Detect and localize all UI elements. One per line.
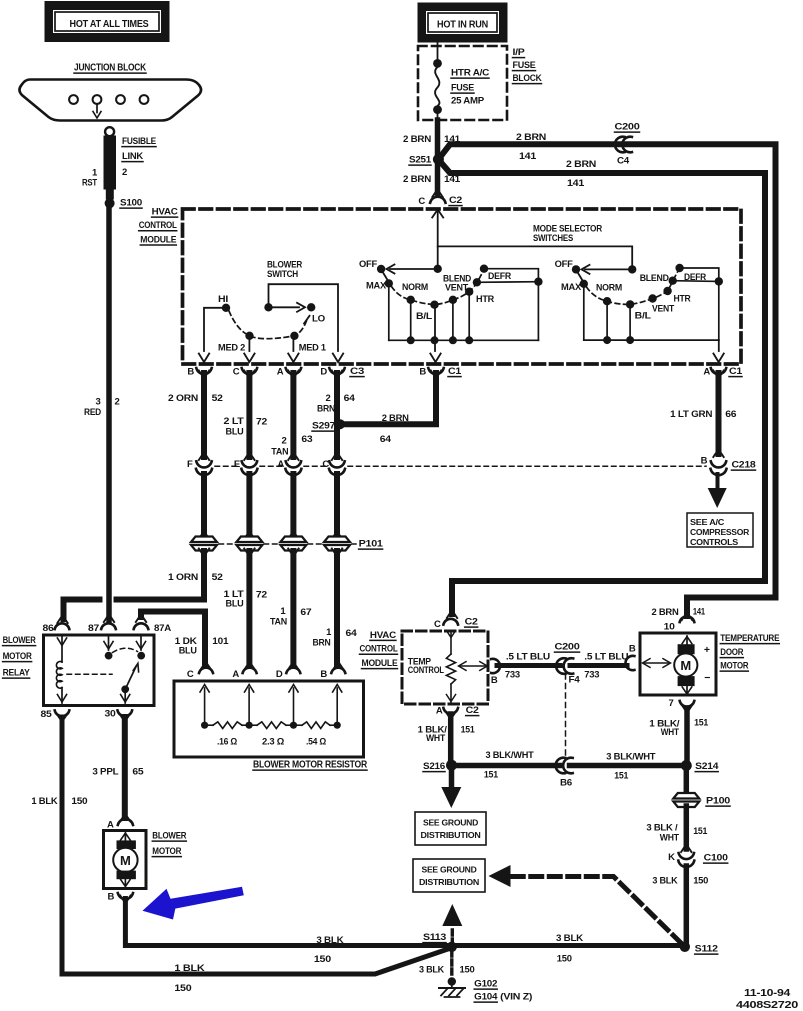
wire 1 ORN 52 to relay pin 86	[117, 549, 223, 600]
connector C2 pin A temp control	[436, 705, 479, 717]
blower switch	[199, 260, 343, 363]
svg-text:F4: F4	[569, 675, 581, 686]
svg-text:733: 733	[505, 670, 520, 681]
svg-text:63: 63	[301, 434, 312, 445]
wire ORN row2 to P101	[199, 474, 209, 539]
svg-text:2 BRN: 2 BRN	[403, 174, 431, 185]
svg-text:LO: LO	[312, 314, 325, 325]
inline connector pin F row 2	[187, 459, 212, 475]
svg-text:A: A	[107, 820, 114, 831]
connector C2 pin B temp control	[491, 659, 500, 686]
temp control potentiometer	[446, 631, 487, 703]
svg-text:M: M	[680, 658, 691, 673]
svg-text:151: 151	[484, 770, 499, 781]
wire LT BLU row2 to P101	[244, 474, 254, 539]
svg-text:A: A	[277, 367, 284, 378]
svg-text:151: 151	[461, 725, 476, 736]
wire 2 BRN 141 upper branch to temp door motor	[438, 132, 775, 620]
svg-text:TEMPERATURE: TEMPERATURE	[720, 633, 779, 644]
svg-text:BLEND: BLEND	[640, 273, 669, 284]
svg-text:F: F	[187, 459, 193, 470]
svg-text:3 BLK: 3 BLK	[316, 935, 343, 946]
svg-text:(VIN Z): (VIN Z)	[500, 992, 532, 1003]
grommet P100	[673, 793, 730, 807]
svg-text:−: −	[704, 672, 710, 684]
svg-text:BLOCK: BLOCK	[513, 73, 542, 84]
svg-text:65: 65	[132, 767, 144, 778]
wire 1 BLK 150 from relay pin 85	[31, 714, 449, 994]
inline connector pin A row 2	[277, 459, 301, 475]
splice S113	[423, 932, 457, 952]
svg-text:B: B	[491, 675, 498, 686]
svg-text:B: B	[629, 644, 636, 655]
svg-text:P100: P100	[706, 796, 730, 807]
svg-text:2: 2	[281, 436, 286, 447]
wire 2 TAN 63	[271, 371, 312, 461]
svg-text:HTR: HTR	[674, 294, 691, 305]
svg-text:30: 30	[105, 709, 116, 720]
svg-text:S214: S214	[695, 761, 719, 772]
svg-text:E: E	[234, 459, 240, 470]
wire 3 BLK/WHT 151 P100 to C100	[646, 806, 708, 852]
svg-text:FUSIBLE: FUSIBLE	[122, 136, 156, 147]
svg-text:2 BRN: 2 BRN	[382, 413, 409, 424]
svg-text:C200: C200	[615, 122, 640, 133]
svg-text:150: 150	[314, 954, 331, 965]
svg-text:C3: C3	[350, 366, 364, 377]
svg-text:2 BRN: 2 BRN	[652, 607, 679, 618]
svg-text:VENT: VENT	[652, 304, 674, 315]
svg-text:M: M	[120, 853, 131, 868]
svg-text:OFF: OFF	[359, 259, 377, 270]
box SEE GROUND DISTRIBUTION 1	[415, 812, 486, 845]
svg-text:HOT IN RUN: HOT IN RUN	[437, 19, 488, 31]
svg-text:C: C	[322, 459, 329, 470]
wire 1 BRN 64 to resistor pin B	[313, 549, 358, 670]
svg-text:MAX: MAX	[561, 282, 582, 293]
dashed arrow S112 to ground distribution 2	[489, 865, 682, 943]
svg-text:HTR: HTR	[476, 294, 494, 305]
svg-text:SWITCHES: SWITCHES	[533, 233, 573, 244]
svg-text:.54 Ω: .54 Ω	[306, 737, 326, 747]
svg-text:2 BRN: 2 BRN	[403, 134, 431, 145]
grommet P101 pass-through 4	[324, 537, 350, 551]
connector C3 pin B	[187, 367, 211, 378]
resistor pin C	[187, 668, 213, 680]
svg-text:CONTROL: CONTROL	[139, 220, 177, 231]
inline connector pin C row 2	[322, 459, 345, 475]
svg-text:7: 7	[669, 698, 674, 709]
svg-text:K: K	[668, 852, 675, 863]
svg-text:G102: G102	[474, 979, 497, 990]
svg-text:S113: S113	[423, 932, 446, 943]
svg-text:150: 150	[174, 983, 191, 994]
blower motor resistor box	[174, 681, 367, 771]
svg-text:B: B	[419, 367, 426, 378]
svg-text:.5 LT BLU: .5 LT BLU	[506, 652, 550, 663]
svg-text:MED 2: MED 2	[218, 343, 245, 354]
svg-text:DEFR: DEFR	[488, 271, 511, 282]
wire .5 LT BLU 733 temp control to C200	[497, 652, 560, 681]
splice S100	[105, 198, 142, 209]
relay coil dashed actuator line	[67, 673, 112, 675]
wire 2 BRN 64 from pin D	[317, 371, 356, 461]
ground G102 G104	[439, 977, 532, 1002]
wire 3 BLK/WHT 151 B6 to S214	[570, 752, 684, 782]
svg-text:.16 Ω: .16 Ω	[217, 737, 237, 747]
temperature door motor	[626, 616, 780, 709]
connector B6	[556, 758, 573, 789]
wire .5 LT BLU 733 C200 to door motor	[570, 652, 629, 681]
svg-text:C: C	[233, 367, 240, 378]
svg-text:151: 151	[614, 771, 629, 782]
svg-text:HVAC: HVAC	[370, 630, 396, 641]
resistor element .16 ohm	[201, 722, 253, 747]
resistor internal taps	[200, 685, 342, 724]
wire 2 BRN 64 S297 branch	[343, 371, 441, 446]
blower motor relay	[3, 623, 172, 720]
svg-text:HVAC: HVAC	[152, 207, 178, 218]
svg-text:2.3 Ω: 2.3 Ω	[262, 737, 284, 747]
svg-text:3 PPL: 3 PPL	[92, 767, 118, 778]
svg-text:BLOWER MOTOR RESISTOR: BLOWER MOTOR RESISTOR	[253, 760, 367, 771]
svg-text:67: 67	[300, 607, 311, 618]
svg-text:B: B	[187, 367, 194, 378]
splice S112	[680, 942, 718, 955]
svg-text:JUNCTION BLOCK: JUNCTION BLOCK	[74, 63, 147, 74]
dashed stub S113 to ground	[419, 951, 475, 978]
svg-text:CONTROL: CONTROL	[360, 644, 398, 655]
relay movable contact arm	[121, 663, 139, 703]
wire 3 PPL 65 relay pin 30 to blower motor	[92, 714, 144, 822]
svg-text:+: +	[704, 644, 710, 656]
mode selector switch 1	[359, 259, 543, 362]
wire 2 BRN 141 S251 to C2	[403, 162, 461, 197]
svg-text:BRN: BRN	[313, 638, 331, 649]
svg-text:2 LT: 2 LT	[224, 416, 244, 427]
svg-text:141: 141	[567, 178, 585, 189]
svg-text:C2: C2	[465, 617, 478, 628]
box SEE GROUND DISTRIBUTION 2	[413, 859, 485, 892]
connector C1 pin B	[419, 366, 462, 378]
svg-text:S112: S112	[695, 944, 718, 955]
svg-text:B/L: B/L	[635, 311, 651, 322]
svg-text:72: 72	[256, 417, 267, 428]
svg-text:D: D	[320, 367, 327, 378]
wire 2 ORN 52	[168, 371, 223, 461]
svg-text:3 BLK: 3 BLK	[652, 876, 677, 887]
svg-text:4408S2720: 4408S2720	[736, 999, 798, 1011]
fusible link 2	[82, 127, 156, 199]
svg-text:C1: C1	[448, 366, 462, 377]
svg-text:G104: G104	[474, 992, 498, 1003]
svg-text:2: 2	[325, 393, 330, 404]
svg-text:B6: B6	[560, 778, 572, 789]
wire 3 RED 2 from S100 to relay pin 87	[84, 203, 120, 622]
svg-text:FUSE: FUSE	[451, 83, 474, 94]
splice S251	[409, 154, 444, 166]
resistor pin D	[276, 668, 300, 680]
svg-text:P101: P101	[359, 539, 384, 550]
svg-text:SWITCH: SWITCH	[267, 269, 298, 280]
svg-text:3: 3	[95, 397, 100, 408]
power label HOT IN RUN	[418, 3, 507, 42]
label HVAC CONTROL MODULE right of wires	[360, 630, 398, 669]
svg-text:150: 150	[557, 954, 572, 965]
svg-text:733: 733	[584, 670, 599, 681]
connector C1 pin A	[703, 366, 743, 378]
svg-text:66: 66	[725, 409, 736, 420]
connector C100 pin K	[668, 852, 728, 867]
blower motor	[104, 819, 187, 903]
wire 1 LT BLU 72 to resistor pin A	[224, 549, 267, 670]
svg-text:S216: S216	[423, 761, 445, 772]
svg-text:2: 2	[122, 167, 127, 178]
svg-text:MOTOR: MOTOR	[3, 651, 32, 662]
svg-text:SEE GROUND: SEE GROUND	[422, 865, 477, 875]
svg-text:2 BRN: 2 BRN	[566, 159, 596, 170]
svg-text:DOOR: DOOR	[720, 647, 743, 658]
svg-text:CONTROL: CONTROL	[408, 665, 444, 676]
svg-text:SEE GROUND: SEE GROUND	[423, 818, 478, 828]
svg-text:87: 87	[88, 623, 99, 634]
svg-text:150: 150	[460, 965, 475, 976]
svg-text:MODULE: MODULE	[362, 658, 398, 669]
svg-text:64: 64	[380, 434, 392, 445]
connector C3 pin C	[233, 367, 257, 378]
svg-text:52: 52	[212, 572, 223, 583]
connector C3 label	[350, 366, 364, 377]
svg-text:LINK: LINK	[122, 151, 143, 162]
svg-text:3 BLK: 3 BLK	[419, 965, 444, 976]
svg-text:1 ORN: 1 ORN	[168, 572, 198, 583]
svg-text:3 BLK: 3 BLK	[556, 933, 583, 944]
svg-text:86: 86	[43, 623, 54, 634]
box SEE A/C COMPRESSOR CONTROLS	[687, 513, 753, 547]
row 2 dashed interconnect line	[215, 465, 706, 467]
svg-text:101: 101	[212, 636, 229, 647]
svg-text:B: B	[107, 892, 114, 903]
fuse HTR A/C 25 AMP	[433, 41, 489, 120]
relay contact 87	[104, 636, 113, 659]
svg-text:85: 85	[41, 709, 53, 720]
svg-text:25 AMP: 25 AMP	[451, 96, 485, 107]
svg-text:151: 151	[693, 826, 708, 837]
svg-text:BLOWER: BLOWER	[152, 831, 186, 842]
HVAC control module dashed box	[139, 207, 741, 365]
wire S214 to P100	[684, 765, 690, 794]
svg-text:87A: 87A	[154, 623, 171, 634]
svg-text:2 BRN: 2 BRN	[516, 132, 546, 143]
wire 3 BLK/WHT 151 S216 to B6	[456, 750, 560, 781]
resistor element 2.3 ohm	[249, 722, 297, 747]
relay contact dashed arc	[113, 648, 138, 652]
svg-text:BLOWER: BLOWER	[3, 635, 36, 646]
svg-text:C: C	[187, 669, 194, 680]
svg-text:A: A	[277, 459, 284, 470]
svg-text:B/L: B/L	[416, 311, 432, 322]
svg-text:C: C	[418, 196, 425, 207]
svg-text:2 ORN: 2 ORN	[168, 393, 198, 404]
svg-text:RST: RST	[82, 178, 97, 189]
svg-text:NORM: NORM	[596, 283, 622, 294]
svg-text:72: 72	[256, 590, 267, 601]
resistor pin A	[232, 668, 256, 680]
svg-text:C200: C200	[555, 642, 580, 653]
I/P fuse block dashed box	[418, 46, 542, 120]
svg-text:10: 10	[664, 622, 675, 633]
svg-text:1 LT GRN: 1 LT GRN	[670, 409, 712, 420]
svg-text:WHT: WHT	[661, 727, 679, 738]
svg-text:TAN: TAN	[271, 447, 288, 458]
svg-text:C2: C2	[466, 705, 479, 716]
junction block	[19, 63, 201, 121]
svg-text:TAN: TAN	[270, 617, 287, 628]
svg-text:150: 150	[71, 796, 87, 807]
connector C2 pin C temp control	[434, 617, 478, 631]
svg-text:A: A	[232, 669, 239, 680]
svg-text:MAX: MAX	[366, 281, 387, 292]
label P101	[359, 539, 384, 550]
resistor pin B	[320, 668, 345, 680]
grommet P101 pass-through 2	[236, 537, 262, 551]
svg-text:C218: C218	[732, 460, 756, 471]
wire to relay pin 86 continuation	[57, 600, 99, 624]
svg-text:1 BLK: 1 BLK	[31, 796, 57, 807]
dashed stub S113 to up arrow	[442, 904, 462, 943]
svg-text:2: 2	[115, 397, 120, 408]
svg-text:BRN: BRN	[317, 404, 335, 415]
wire 2 LT BLU 72	[224, 371, 268, 461]
relay contact 87A	[136, 636, 145, 659]
svg-text:150: 150	[693, 876, 708, 887]
svg-text:3 BLK/WHT: 3 BLK/WHT	[606, 752, 655, 763]
connector C218 pin B	[701, 456, 756, 476]
wire 1 DK BLU 101 relay 87A to resistor pin C	[136, 612, 230, 670]
svg-text:C100: C100	[704, 853, 728, 864]
svg-text:11-10-94: 11-10-94	[744, 987, 790, 999]
wire C2 to mode selector feed	[438, 211, 633, 266]
svg-text:WHT: WHT	[660, 833, 679, 844]
wire 2 BRN 141 lower branch to temp control	[438, 159, 765, 618]
svg-text:RED: RED	[84, 407, 101, 418]
svg-text:C2: C2	[449, 195, 462, 206]
svg-text:OFF: OFF	[555, 259, 573, 270]
svg-text:MOTOR: MOTOR	[152, 846, 181, 857]
wire 1 TAN 67 to resistor pin D	[270, 549, 311, 670]
svg-text:BLU: BLU	[226, 599, 244, 610]
svg-text:SEE A/C: SEE A/C	[690, 518, 725, 527]
svg-text:64: 64	[346, 628, 358, 639]
power label HOT AT ALL TIMES	[45, 2, 169, 42]
svg-text:FUSE: FUSE	[513, 60, 536, 71]
connector C200 C4 on 2 BRN wire	[615, 122, 640, 167]
svg-text:B: B	[701, 456, 708, 467]
svg-text:HTR A/C: HTR A/C	[451, 68, 489, 79]
svg-text:S251: S251	[409, 155, 432, 166]
svg-text:CONTROLS: CONTROLS	[690, 538, 739, 547]
connector C3 pin D	[320, 367, 344, 378]
wire 3 BLK 150 C100 to S112	[652, 866, 708, 944]
resistor element .54 ohm	[294, 722, 341, 747]
svg-text:MOTOR: MOTOR	[720, 661, 748, 672]
wire S216 to ground distribution arrow	[441, 765, 461, 808]
dashed link C200 F4 to B6	[565, 674, 567, 757]
svg-text:BLU: BLU	[226, 427, 244, 438]
svg-text:HOT AT ALL TIMES: HOT AT ALL TIMES	[70, 18, 149, 30]
svg-text:WHT: WHT	[426, 733, 445, 744]
wire C218 to A/C compressor controls arrow	[708, 474, 727, 508]
svg-text:141: 141	[693, 607, 706, 618]
diagram date code	[736, 987, 798, 1011]
temp control hvac module dashed box	[402, 631, 488, 704]
svg-text:COMPRESSOR: COMPRESSOR	[690, 528, 749, 537]
svg-text:C4: C4	[617, 156, 630, 167]
svg-text:D: D	[276, 669, 283, 680]
svg-text:BLU: BLU	[179, 646, 197, 657]
svg-text:A: A	[703, 367, 710, 378]
svg-text:MED 1: MED 1	[299, 343, 327, 354]
svg-text:3 BLK/WHT: 3 BLK/WHT	[486, 750, 534, 761]
wire BRN row2 to P101	[332, 474, 342, 539]
connector C3 pin A	[277, 367, 301, 378]
svg-text:52: 52	[212, 393, 223, 404]
svg-text:A: A	[436, 706, 443, 717]
svg-text:.5 LT BLU: .5 LT BLU	[584, 652, 628, 663]
svg-text:RELAY: RELAY	[3, 668, 31, 679]
inline connector pin E row 2	[234, 459, 257, 475]
svg-text:I/P: I/P	[513, 47, 526, 58]
wire TAN row2 to P101	[288, 474, 298, 539]
wire 2 BRN 141 fuse to S251	[403, 120, 461, 156]
wire 1 BLK/WHT 151 temp control A to S216	[418, 712, 476, 763]
wire 1 BLK/WHT 151 door motor to S214	[649, 705, 709, 762]
label MODE SELECTOR SWITCHES	[533, 224, 602, 245]
connector C2 pin C at HVAC module top	[418, 195, 462, 218]
svg-text:1 BLK: 1 BLK	[174, 963, 204, 974]
relay coil	[56, 636, 66, 703]
grommet line dashed	[219, 543, 356, 545]
blue highlight arrow	[143, 887, 244, 920]
svg-text:DISTRIBUTION: DISTRIBUTION	[421, 830, 481, 840]
splice S297	[312, 419, 345, 431]
svg-text:S297: S297	[312, 421, 335, 432]
svg-text:VENT: VENT	[445, 283, 468, 294]
svg-text:C1: C1	[729, 366, 743, 377]
svg-text:MODULE: MODULE	[140, 234, 176, 245]
svg-text:S100: S100	[120, 198, 142, 209]
svg-text:64: 64	[344, 393, 356, 404]
grommet P101 pass-through 1	[191, 537, 217, 551]
mode selector switch 2	[555, 259, 724, 362]
wire 3 BLK 150 blower motor B to S112	[120, 896, 684, 966]
svg-text:B: B	[320, 669, 327, 680]
svg-text:DISTRIBUTION: DISTRIBUTION	[419, 877, 479, 887]
svg-text:NORM: NORM	[402, 282, 428, 293]
splice S214	[681, 760, 719, 772]
splice S216	[423, 760, 457, 772]
connector C200 F4	[555, 642, 581, 686]
svg-text:141: 141	[519, 151, 537, 162]
grommet P101 pass-through 3	[280, 537, 306, 551]
svg-text:151: 151	[694, 718, 709, 729]
svg-text:C: C	[434, 619, 441, 630]
wire 1 LT GRN 66	[670, 371, 736, 458]
svg-text:HI: HI	[218, 294, 228, 305]
